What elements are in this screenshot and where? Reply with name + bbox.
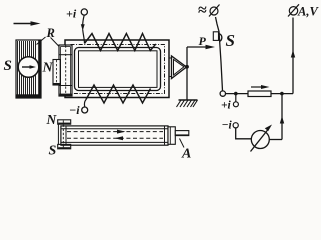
svg-text:R: R	[46, 26, 55, 40]
svg-text:N: N	[46, 112, 58, 127]
svg-text:A: A	[181, 147, 191, 161]
svg-text:≈: ≈	[198, 2, 207, 19]
svg-text:+i: +i	[221, 100, 232, 112]
svg-text:S: S	[49, 144, 57, 159]
svg-text:−i: −i	[222, 120, 233, 132]
svg-text:S: S	[226, 31, 235, 50]
svg-text:N: N	[42, 61, 54, 76]
svg-text:S: S	[4, 58, 12, 74]
svg-text:P: P	[199, 34, 207, 48]
svg-text:−i: −i	[69, 103, 80, 117]
svg-text:+i: +i	[66, 7, 77, 21]
svg-text:A,V: A,V	[297, 5, 319, 19]
